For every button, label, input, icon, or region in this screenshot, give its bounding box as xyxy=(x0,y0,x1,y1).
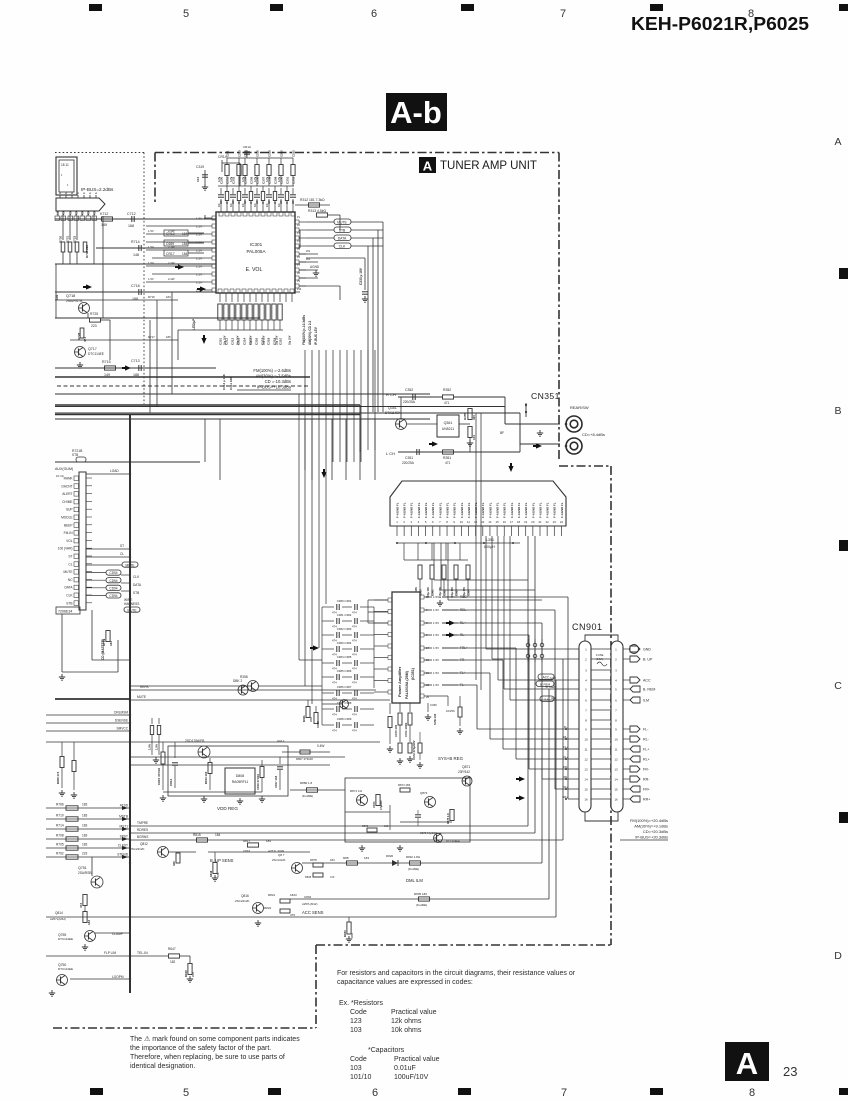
svg-text:1.5V: 1.5V xyxy=(148,229,154,233)
svg-text:CLK: CLK xyxy=(66,594,73,598)
plug FL- xyxy=(623,728,630,730)
svg-text:FL+: FL+ xyxy=(643,748,649,752)
svg-text:L CH: L CH xyxy=(386,451,395,456)
svg-text:15: 15 xyxy=(496,520,500,524)
svg-text:C302: C302 xyxy=(291,176,295,184)
wire mesh drop 3 xyxy=(171,292,173,394)
svg-text:RDRES: RDRES xyxy=(137,828,148,832)
junction dots cluster xyxy=(526,643,530,647)
svg-text:R351: R351 xyxy=(443,456,451,460)
wire bundle right down xyxy=(382,222,384,412)
pin DATA xyxy=(74,585,79,590)
svg-text:C309: C309 xyxy=(273,176,277,184)
svg-text:CL: CL xyxy=(68,562,72,566)
wire loop around VDD REG xyxy=(168,746,288,796)
svg-text:14: 14 xyxy=(584,777,588,781)
svg-text:F-AGND FL: F-AGND FL xyxy=(531,502,535,518)
wire rows left mesh xyxy=(55,218,216,220)
wire amp out REG+ xyxy=(420,595,424,599)
transistor Q874 xyxy=(434,834,443,843)
svg-text:1.5V: 1.5V xyxy=(433,595,439,599)
svg-text:2.2W: 2.2W xyxy=(168,261,175,265)
svg-text:C: C xyxy=(834,680,842,692)
svg-text:474: 474 xyxy=(352,713,357,717)
capacitor C718 xyxy=(138,289,140,295)
wire FLP LIM row xyxy=(46,955,130,957)
svg-text:11: 11 xyxy=(467,520,470,524)
wire amp out FRL+ xyxy=(420,646,424,650)
svg-text:4.5: 4.5 xyxy=(81,211,85,215)
svg-text:CD94: CD94 xyxy=(109,586,117,590)
svg-text:1.5V: 1.5V xyxy=(196,281,202,285)
wire xyxy=(146,367,216,369)
svg-text:19: 19 xyxy=(524,520,528,524)
svg-text:Practical value: Practical value xyxy=(394,1056,440,1063)
wire xyxy=(400,397,402,418)
svg-text:C386 C387: C386 C387 xyxy=(337,685,352,689)
svg-text:Q812: Q812 xyxy=(140,842,148,846)
svg-text:C382 C383: C382 C383 xyxy=(337,627,352,631)
svg-text:14: 14 xyxy=(614,777,618,781)
svg-text:184: 184 xyxy=(109,641,113,646)
wire xyxy=(322,703,340,705)
wire MUTE crossing xyxy=(130,699,390,701)
svg-text:2SA/RSB: 2SA/RSB xyxy=(78,871,91,875)
capacitor C872 xyxy=(415,814,421,816)
svg-text:Q717: Q717 xyxy=(88,347,97,351)
svg-text:L351: L351 xyxy=(486,538,494,542)
svg-text:F-AGND FL: F-AGND FL xyxy=(431,502,435,518)
svg-text:GND: GND xyxy=(643,648,651,652)
wires from control boxes to right xyxy=(351,221,383,223)
svg-text:13: 13 xyxy=(481,520,485,524)
resistor R830 xyxy=(347,861,358,865)
svg-text:F-AGND FL: F-AGND FL xyxy=(403,502,407,518)
resistor R766 xyxy=(46,807,130,809)
svg-text:10µ 16V: 10µ 16V xyxy=(237,335,240,345)
svg-text:473: 473 xyxy=(216,872,220,877)
svg-text:MODLE: MODLE xyxy=(61,516,72,520)
resistor R714b xyxy=(46,828,130,830)
svg-text:C319: C319 xyxy=(196,165,204,169)
svg-text:R717: R717 xyxy=(148,335,155,339)
bus line 4 xyxy=(55,376,310,378)
svg-text:TEL-IN: TEL-IN xyxy=(137,951,148,955)
svg-text:DATA: DATA xyxy=(338,237,347,241)
svg-text:Q361: Q361 xyxy=(444,421,453,425)
svg-text:MUTE: MUTE xyxy=(337,221,347,225)
svg-text:C712: C712 xyxy=(127,212,136,216)
svg-text:RL-: RL- xyxy=(643,738,650,742)
net box MUTE xyxy=(334,219,351,225)
unit label A box xyxy=(419,157,436,173)
resistor R813 xyxy=(209,758,211,762)
svg-text:103: 103 xyxy=(350,1027,362,1034)
wire pin26 xyxy=(420,694,424,698)
svg-text:0.4W: 0.4W xyxy=(317,744,324,748)
resistor R833 xyxy=(347,922,351,934)
svg-text:183: 183 xyxy=(364,856,369,860)
svg-text:10µ 16V: 10µ 16V xyxy=(289,335,292,345)
svg-text:1.5V: 1.5V xyxy=(196,257,202,261)
svg-text:184: 184 xyxy=(215,833,221,837)
svg-text:R880 1.8: R880 1.8 xyxy=(300,781,313,785)
plug RR- xyxy=(623,778,630,780)
svg-text:R714: R714 xyxy=(131,240,140,244)
svg-text:10µ 16V: 10µ 16V xyxy=(276,335,279,345)
svg-text:UN5211: UN5211 xyxy=(442,427,454,431)
wire sys internal 1 xyxy=(345,811,390,813)
junction arrow xyxy=(125,365,131,370)
resistor R362 vertical xyxy=(314,713,318,724)
capacitor CR12 group xyxy=(164,230,188,236)
svg-text:R766: R766 xyxy=(56,803,64,807)
svg-text:474: 474 xyxy=(332,697,337,701)
svg-text:SUP: SUP xyxy=(66,508,73,512)
svg-text:R835 182: R835 182 xyxy=(414,892,427,896)
svg-text:C351: C351 xyxy=(405,456,413,460)
bus line 6 xyxy=(55,418,430,420)
svg-text:Q751: Q751 xyxy=(78,866,87,870)
svg-text:4.5: 4.5 xyxy=(93,211,97,215)
svg-text:R833: R833 xyxy=(343,930,347,937)
wire xyxy=(404,559,468,561)
thick line bottom bar xyxy=(55,698,130,700)
pin CL xyxy=(74,562,79,567)
wire xyxy=(100,319,110,321)
junction arrow amp xyxy=(449,620,455,625)
svg-text:C713: C713 xyxy=(131,359,140,363)
wire xyxy=(93,216,95,264)
svg-text:DML ILM: DML ILM xyxy=(406,878,423,883)
svg-text:RL-: RL- xyxy=(563,735,568,739)
tuner amp unit boundary step xyxy=(315,945,317,1028)
svg-text:100uF/10V: 100uF/10V xyxy=(394,1074,429,1081)
wires strip to bus ST CL xyxy=(86,548,129,550)
svg-text:C815 470/16: C815 470/16 xyxy=(157,767,161,785)
svg-text:IP-BUS=2.2dBs: IP-BUS=2.2dBs xyxy=(81,187,114,192)
diode D820 xyxy=(392,860,398,866)
svg-text:C388 C389: C388 C389 xyxy=(337,717,352,721)
svg-text:474: 474 xyxy=(352,625,357,629)
vertical resistors left column xyxy=(62,216,64,240)
wire xyxy=(46,741,130,743)
svg-text:R817: R817 xyxy=(243,839,251,843)
svg-text:BGRNS: BGRNS xyxy=(137,835,148,839)
svg-text:1.5V: 1.5V xyxy=(196,217,202,221)
svg-text:C316: C316 xyxy=(254,337,258,345)
net box MUTE left xyxy=(86,564,122,566)
resistor R725 xyxy=(90,318,101,322)
capacitor C374 xyxy=(389,703,391,714)
svg-text:Q814: Q814 xyxy=(55,911,63,915)
svg-text:C301: C301 xyxy=(285,176,289,184)
svg-text:R648: R648 xyxy=(184,970,188,977)
svg-text:1.5V: 1.5V xyxy=(196,225,202,229)
bus line 7 xyxy=(55,461,200,463)
svg-text:C305: C305 xyxy=(249,176,253,184)
ic Q361 UN5211 xyxy=(437,415,459,437)
svg-text:ST: ST xyxy=(68,555,72,559)
svg-text:F-AGND FL: F-AGND FL xyxy=(445,502,449,518)
svg-text:184: 184 xyxy=(166,295,171,299)
svg-text:CD94: CD94 xyxy=(109,579,117,583)
resistor R714 xyxy=(138,245,140,251)
svg-text:R647: R647 xyxy=(168,947,176,951)
svg-text:2.2W: 2.2W xyxy=(168,277,175,281)
wire ACC row xyxy=(46,916,556,918)
pin MUTE xyxy=(74,570,79,575)
resistor R762 xyxy=(46,856,130,858)
svg-text:NC: NC xyxy=(68,578,73,582)
plug GND xyxy=(623,648,630,650)
svg-text:MUTE: MUTE xyxy=(63,570,72,574)
svg-text:10: 10 xyxy=(584,737,588,741)
wire row 899 xyxy=(290,898,549,900)
ground xyxy=(439,600,441,603)
svg-text:DRLMSM: DRLMSM xyxy=(114,711,128,715)
capacitor C713 xyxy=(138,365,140,371)
svg-text:C310: C310 xyxy=(279,150,283,157)
svg-text:CL: CL xyxy=(120,552,124,556)
svg-text:0.1: 0.1 xyxy=(265,203,269,207)
svg-text:B. REM: B. REM xyxy=(643,688,655,692)
wire row 757 xyxy=(130,756,345,758)
svg-text:DTA114EK: DTA114EK xyxy=(385,411,401,415)
svg-text:12: 12 xyxy=(584,757,588,761)
svg-text:TUNER AMP UNIT: TUNER AMP UNIT xyxy=(440,160,537,172)
svg-text:1.5V: 1.5V xyxy=(196,273,202,277)
bus line 5 xyxy=(55,393,430,395)
resistor R738 xyxy=(83,242,87,252)
junction arrow down xyxy=(201,338,206,344)
wires into IC351 left xyxy=(368,599,388,601)
svg-text:471: 471 xyxy=(444,401,450,405)
svg-text:RL+: RL+ xyxy=(563,755,569,759)
wire to jacks xyxy=(519,424,521,452)
svg-text:C371 102/1: C371 102/1 xyxy=(404,722,408,737)
svg-text:RR+: RR+ xyxy=(643,798,650,802)
svg-text:FM(100%)=-10.3dBs: FM(100%)=-10.3dBs xyxy=(302,315,306,345)
wire bottom bus xyxy=(178,329,283,331)
svg-text:FR+: FR+ xyxy=(643,788,650,792)
svg-text:Q871: Q871 xyxy=(462,765,470,769)
sheet label A box bottom xyxy=(725,1042,769,1081)
svg-text:4.5: 4.5 xyxy=(62,211,66,215)
svg-text:16: 16 xyxy=(584,797,588,801)
net box ACC xyxy=(538,674,554,679)
grounds vdd xyxy=(162,795,164,798)
wire xyxy=(102,216,104,287)
svg-text:RR-: RR- xyxy=(643,778,650,782)
svg-text:D820: D820 xyxy=(386,854,394,858)
resistor R832 xyxy=(410,861,421,865)
svg-text:F-AGND FL: F-AGND FL xyxy=(481,502,485,518)
svg-text:473: 473 xyxy=(79,903,83,908)
wire sys loop xyxy=(345,778,470,842)
wire vdd bottom xyxy=(163,791,262,793)
resistor R352 xyxy=(443,395,454,399)
svg-text:4.5: 4.5 xyxy=(69,211,73,215)
svg-text:7206E34: 7206E34 xyxy=(58,610,72,614)
capacitor group C361-C365 xyxy=(418,565,422,579)
IC351 left pins xyxy=(388,598,392,602)
pin SUP xyxy=(74,507,79,512)
pin labels under connector xyxy=(55,216,60,221)
svg-text:The ⚠ mark found on some com: The ⚠ mark found on some component parts… xyxy=(130,1035,300,1043)
plug RL+ xyxy=(623,758,630,760)
svg-text:6: 6 xyxy=(372,1087,378,1099)
IC301 top pins xyxy=(219,212,223,216)
svg-text:For resistors and capacitors i: For resistors and capacitors in the circ… xyxy=(337,970,576,977)
capacitor CR14 network xyxy=(221,160,223,172)
svg-text:184: 184 xyxy=(182,242,188,246)
svg-text:R710: R710 xyxy=(56,814,64,818)
wire L channel xyxy=(398,451,520,453)
wire REFB row xyxy=(130,689,376,691)
svg-text:R815: R815 xyxy=(193,833,201,837)
svg-text:149: 149 xyxy=(101,223,107,227)
svg-text:F-AGND FL: F-AGND FL xyxy=(560,502,564,518)
svg-text:2SC2412K: 2SC2412K xyxy=(272,858,286,862)
capacitor C304 top far xyxy=(246,150,248,158)
wire xyxy=(306,257,365,259)
resistor R876 xyxy=(367,828,377,832)
bus drop wires xyxy=(204,419,206,462)
svg-text:4.7µ: 4.7µ xyxy=(241,176,245,182)
svg-text:R719: R719 xyxy=(102,638,106,646)
resistor R816 xyxy=(176,853,180,863)
svg-text:23: 23 xyxy=(783,1064,797,1079)
plug ILM xyxy=(623,699,630,701)
svg-text:0.1: 0.1 xyxy=(229,203,233,207)
svg-text:R878: R878 xyxy=(310,858,317,862)
wire DML row xyxy=(302,862,542,864)
transistor Q353 xyxy=(340,700,349,709)
wire block feed L3 xyxy=(447,543,449,600)
ground xyxy=(469,440,471,443)
svg-text:100 (VAR): 100 (VAR) xyxy=(58,547,73,551)
junction arrow CN901 row2 xyxy=(519,795,525,800)
svg-text:4.7µ: 4.7µ xyxy=(277,176,281,182)
wire amp out FR- xyxy=(420,658,424,662)
svg-text:DTC114EE: DTC114EE xyxy=(88,352,104,356)
svg-text:CD94: CD94 xyxy=(109,594,117,598)
svg-text:C311 168: C311 168 xyxy=(229,377,233,390)
capacitor C375 xyxy=(418,743,422,753)
ground xyxy=(364,296,366,299)
capacitor C712 xyxy=(131,216,133,222)
svg-text:DTC114EE: DTC114EE xyxy=(58,937,73,941)
svg-text:R813 103: R813 103 xyxy=(204,771,208,784)
IC301 left pins xyxy=(212,216,216,220)
svg-text:BEEP: BEEP xyxy=(64,523,73,527)
svg-text:C358: C358 xyxy=(316,721,320,728)
resistor R712 xyxy=(102,217,113,221)
connector multi-pin shell xyxy=(56,198,105,211)
svg-text:4.7µ: 4.7µ xyxy=(229,176,233,182)
capacitor stack below IC301 xyxy=(218,304,222,320)
wire amp out FL- xyxy=(420,683,424,687)
wire top bus to IC301 xyxy=(218,185,294,187)
svg-text:Code: Code xyxy=(350,1009,367,1016)
svg-text:1.5V: 1.5V xyxy=(433,608,439,612)
pin BEEP xyxy=(74,523,79,528)
ground xyxy=(257,920,259,923)
wire sys internal 2 xyxy=(400,821,452,823)
svg-text:CR17: CR17 xyxy=(166,252,175,256)
pin DACNT xyxy=(74,484,79,489)
ip-bus area dotted border xyxy=(55,152,144,154)
svg-text:Q8 7: Q8 7 xyxy=(278,853,285,857)
svg-text:R835: R835 xyxy=(305,875,312,879)
wire top tier bus xyxy=(227,157,293,159)
svg-text:4.7µ: 4.7µ xyxy=(253,176,257,182)
svg-text:473: 473 xyxy=(330,875,335,879)
junction arrow CN901 row xyxy=(519,776,525,781)
bus line 2 thick segment xyxy=(55,414,360,416)
plug FR- xyxy=(623,768,630,770)
resistor R835 flame xyxy=(419,897,430,901)
svg-text:A257L(M12): A257L(M12) xyxy=(50,917,66,921)
CN901 bottom bracket xyxy=(585,812,618,821)
svg-text:183: 183 xyxy=(87,920,91,925)
plug RL- xyxy=(623,738,630,740)
resistor R879 xyxy=(313,873,323,877)
wire row RDRES xyxy=(130,832,535,834)
svg-text:220/25A: 220/25A xyxy=(403,400,416,404)
svg-text:CD=+8.4dBs: CD=+8.4dBs xyxy=(582,432,605,437)
svg-text:F-AGND FL: F-AGND FL xyxy=(438,502,442,518)
svg-text:24: 24 xyxy=(560,520,564,524)
svg-text:C316: C316 xyxy=(255,150,259,157)
wire mesh row 340 xyxy=(70,339,178,341)
ground xyxy=(155,757,157,760)
wires block down xyxy=(403,543,405,560)
svg-text:223: 223 xyxy=(91,324,97,328)
svg-text:(FLAME): (FLAME) xyxy=(302,794,313,798)
CN901 row wires xyxy=(591,648,611,650)
svg-text:R721: R721 xyxy=(66,235,70,243)
svg-text:C333 µ 16V: C333 µ 16V xyxy=(359,267,363,285)
svg-text:CLK: CLK xyxy=(339,245,346,249)
svg-text:B: B xyxy=(834,405,841,417)
capacitor C352 xyxy=(412,394,414,400)
net box ILM xyxy=(540,696,554,701)
resistor R822 xyxy=(280,909,290,913)
wire block feed L2 xyxy=(440,543,442,590)
svg-text:A: A xyxy=(736,1046,758,1081)
svg-text:AM(30%)=+9.1dBs: AM(30%)=+9.1dBs xyxy=(634,824,668,829)
transistor Q803 xyxy=(238,685,248,695)
svg-text:2SC2412K: 2SC2412K xyxy=(130,847,145,851)
resistor R875 xyxy=(450,810,454,821)
main vertical bus xyxy=(129,415,131,993)
svg-text:CD94: CD94 xyxy=(109,571,117,575)
svg-text:8: 8 xyxy=(749,1087,755,1099)
svg-text:R716: R716 xyxy=(148,295,155,299)
svg-text:SVR 103: SVR 103 xyxy=(433,713,437,725)
plug ACC xyxy=(623,679,630,681)
op-amp IC301 body xyxy=(216,212,295,293)
resistor R878 xyxy=(313,863,323,867)
svg-text:DACNT: DACNT xyxy=(62,484,73,488)
svg-text:R705: R705 xyxy=(56,843,64,847)
svg-text:RANK: RANK xyxy=(64,477,74,481)
svg-text:4.7µ: 4.7µ xyxy=(265,176,269,182)
capacitor C817 xyxy=(279,757,281,764)
svg-text:R312 181 7.3kΩ: R312 181 7.3kΩ xyxy=(300,198,325,202)
